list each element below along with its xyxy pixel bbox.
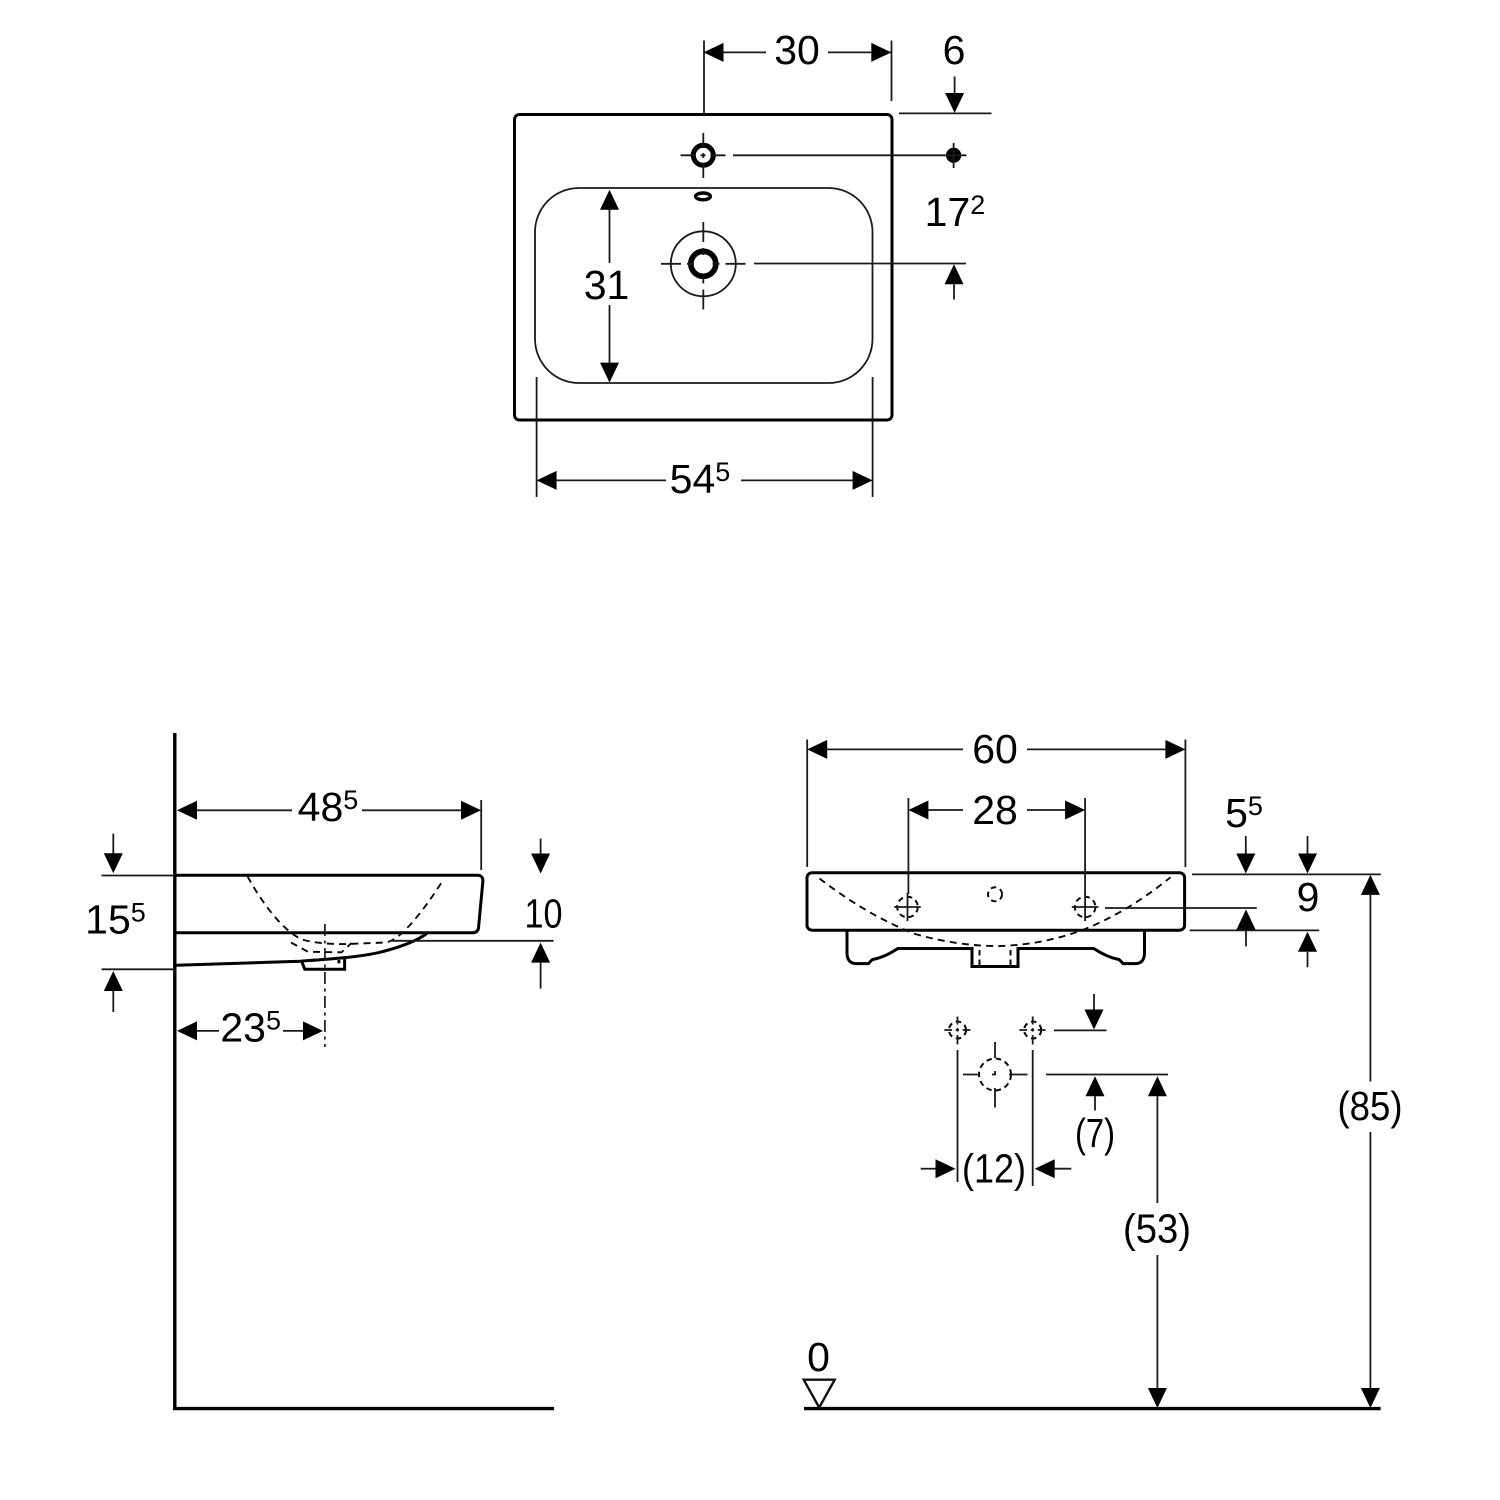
top surface reference line (left of wall) xyxy=(102,875,174,877)
left tap hole (dashed) xyxy=(897,897,918,918)
dimension 28: line and arrows xyxy=(928,809,1065,811)
dimension 23.5: line and arrows xyxy=(197,1030,303,1032)
overflow hole (dashed, front) xyxy=(988,887,1002,901)
svg-text:28: 28 xyxy=(972,787,1018,833)
dimension 30: extension lines xyxy=(704,41,892,114)
dimension 28: extension lines xyxy=(908,798,1085,894)
datum triangle xyxy=(804,1380,835,1408)
dimension 31: line and arrows xyxy=(609,209,611,363)
svg-text:(53): (53) xyxy=(1123,1206,1191,1252)
svg-text:55: 55 xyxy=(1225,790,1263,836)
wall line xyxy=(173,733,176,1409)
dimension 9: arrows xyxy=(1307,836,1309,854)
svg-text:(7): (7) xyxy=(1075,1110,1115,1156)
drain outer circle xyxy=(671,231,736,296)
floor line (side) xyxy=(173,1407,554,1410)
dimension 6: arrow down to rim edge xyxy=(954,77,956,95)
left mounting hole cross xyxy=(944,1017,970,1045)
overflow slot xyxy=(696,193,711,200)
siphon cross xyxy=(963,1042,1028,1108)
svg-text:31: 31 xyxy=(584,262,630,308)
svg-text:545: 545 xyxy=(670,456,731,502)
dimension (53): line and arrows xyxy=(1148,1076,1167,1096)
left mounting hole (dashed) xyxy=(949,1022,966,1039)
right mounting hole (dashed) xyxy=(1024,1022,1041,1039)
apron / underside profile (front) xyxy=(847,930,1145,966)
mounting hole extension lines xyxy=(958,1050,1033,1186)
dimension 48.5: extension line xyxy=(480,800,482,870)
drain trap recess (side profile) xyxy=(302,959,345,970)
basin bowl (plan) xyxy=(535,188,873,383)
rim edge reference line (right) xyxy=(899,112,992,114)
svg-text:60: 60 xyxy=(972,726,1018,772)
drain recess dashed profile xyxy=(291,943,352,953)
dimension 17^2: up arrow at drain line xyxy=(945,264,964,284)
dot terminator xyxy=(946,148,961,163)
svg-text:0: 0 xyxy=(807,1334,830,1380)
basin interior dashed profile xyxy=(248,876,444,944)
dimension 60: extension lines xyxy=(807,740,1185,868)
drain hole xyxy=(691,251,716,276)
dimension 60: line and arrows xyxy=(827,748,1165,750)
svg-text:9: 9 xyxy=(1297,874,1320,920)
dimension (12): arrows xyxy=(921,1168,936,1170)
right tap hole cross xyxy=(1072,893,1099,921)
dimension 30: line and arrows xyxy=(704,51,892,53)
washbasin outer rim (plan) xyxy=(515,115,893,421)
bottom front edge reference line (left of wall) xyxy=(102,968,174,970)
dimension 54.5: extension lines xyxy=(537,377,873,497)
dimension (85): line and arrows xyxy=(1361,875,1380,895)
svg-text:485: 485 xyxy=(298,784,359,830)
drain centerline horizontal xyxy=(661,263,746,265)
underside front edge rising to rim (side profile) xyxy=(177,933,428,966)
dot cross ticks xyxy=(946,143,967,168)
floor line xyxy=(804,1407,1381,1410)
dimension 15.5: arrows xyxy=(112,834,114,854)
svg-text:6: 6 xyxy=(943,27,966,73)
dimension (7): up arrow xyxy=(1086,1076,1105,1096)
underside reference line (right) xyxy=(392,940,554,942)
basin interior dashed curve (front) xyxy=(820,877,1171,946)
trap rear edge tick (side) xyxy=(337,960,340,963)
tap hole centerline vertical xyxy=(702,133,704,178)
trap dashed sides xyxy=(980,950,1011,966)
siphon circle (dashed) xyxy=(979,1059,1011,1091)
svg-text:(12): (12) xyxy=(962,1146,1026,1192)
left tap hole cross xyxy=(894,893,921,921)
svg-text:30: 30 xyxy=(774,27,820,73)
dimension 48.5: line and arrows xyxy=(197,809,461,811)
svg-text:155: 155 xyxy=(85,897,146,943)
svg-text:(85): (85) xyxy=(1338,1083,1403,1129)
drain centerline (side) xyxy=(324,924,326,1047)
svg-text:235: 235 xyxy=(220,1004,281,1050)
dimension 5.5: arrows xyxy=(1245,836,1247,854)
svg-text:172: 172 xyxy=(925,189,986,235)
right tap hole (dashed) xyxy=(1075,897,1096,918)
drain reference line xyxy=(754,263,966,265)
dimension (7): down arrow xyxy=(1093,994,1095,1010)
washbasin body (front) xyxy=(807,873,1185,931)
tap hole reference line (right) xyxy=(1105,907,1257,909)
tap hole xyxy=(693,145,713,165)
tap hole centerline horizontal xyxy=(681,154,726,156)
top surface reference line (right) xyxy=(1192,873,1381,875)
right mounting hole cross xyxy=(1019,1017,1045,1045)
mounting hole level reference line xyxy=(1054,1029,1107,1031)
svg-text:10: 10 xyxy=(525,891,563,937)
dimension 10: arrows xyxy=(540,839,542,854)
basin rim band (side profile) xyxy=(177,875,483,933)
tap hole reference line to dot xyxy=(733,154,946,156)
rim bottom reference line (right) xyxy=(1190,929,1320,931)
siphon level reference line xyxy=(1046,1074,1168,1076)
dimension 54.5: line and arrows xyxy=(557,479,853,481)
drain centerline vertical xyxy=(702,222,704,310)
